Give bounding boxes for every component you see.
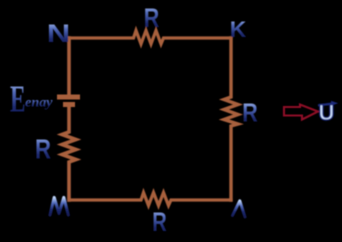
svg-text:R: R xyxy=(144,3,160,33)
svg-text:E: E xyxy=(10,79,26,121)
svg-text:R: R xyxy=(35,134,51,165)
svg-text:N: N xyxy=(47,20,71,48)
svg-text:K: K xyxy=(230,17,247,42)
svg-text:R: R xyxy=(242,100,258,128)
svg-text:R: R xyxy=(152,207,167,237)
svg-text:епау: епау xyxy=(25,96,53,111)
svg-text:U: U xyxy=(319,100,335,125)
